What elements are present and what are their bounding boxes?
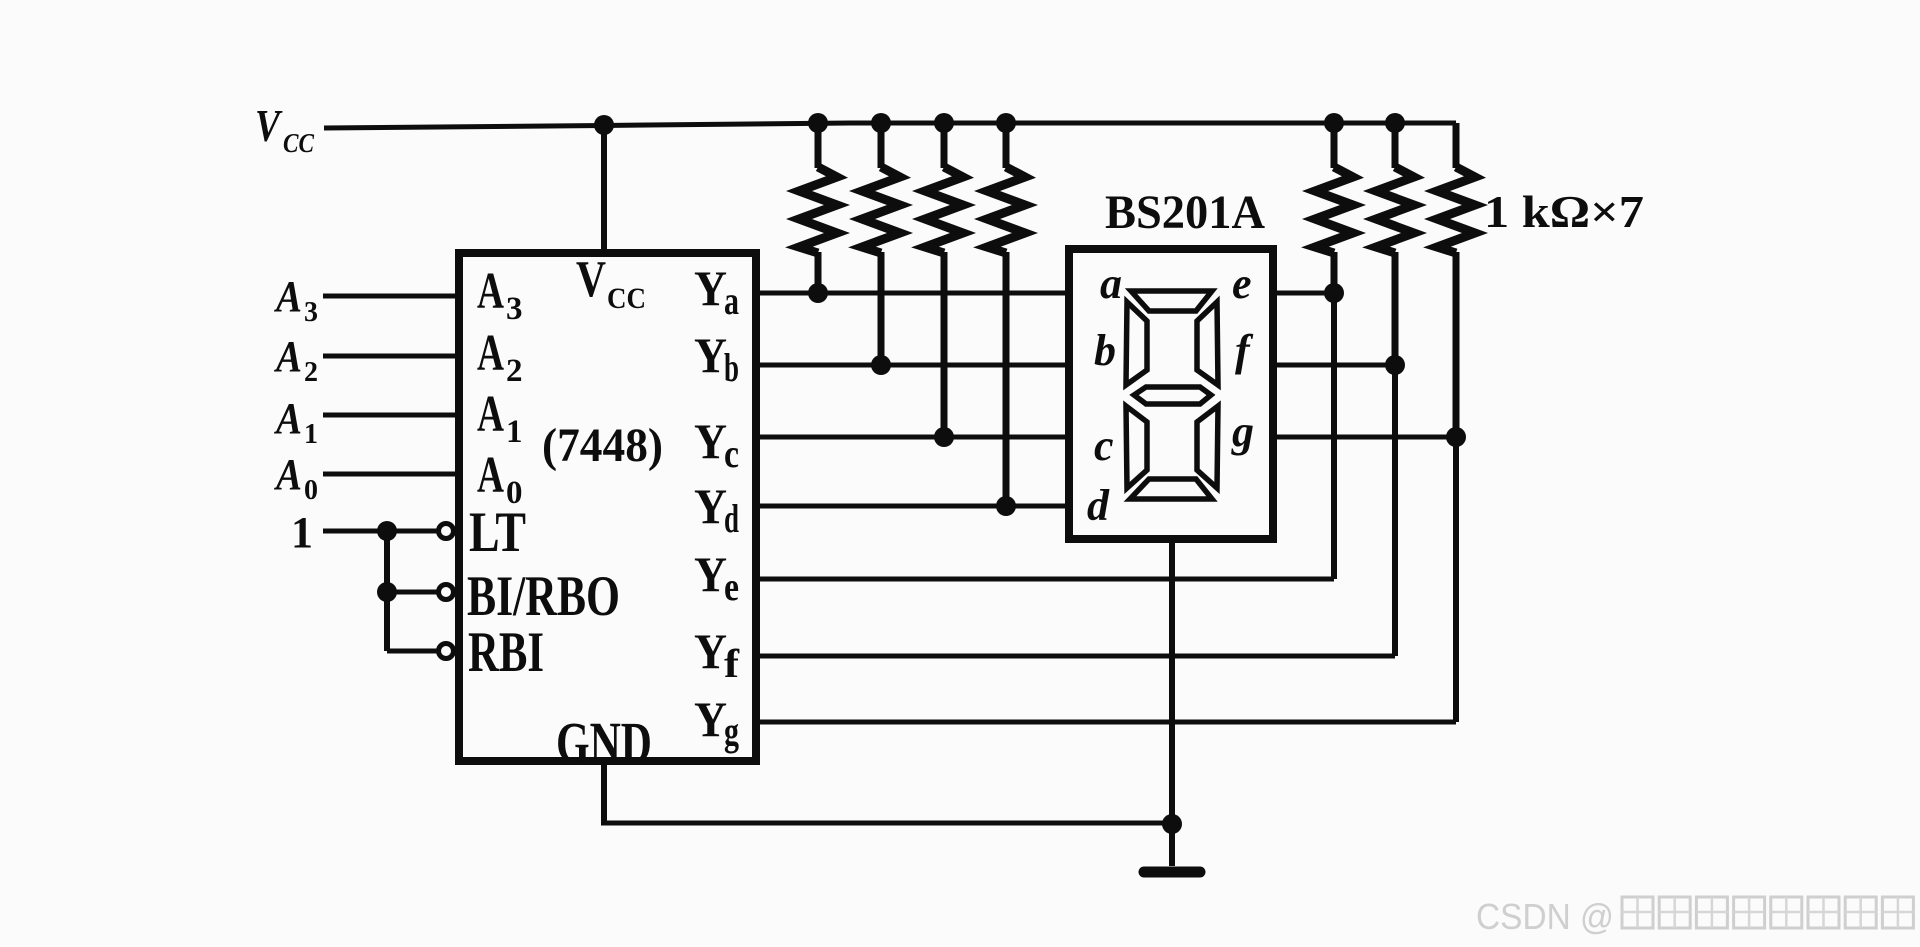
svg-text:3: 3 <box>304 297 318 328</box>
svg-text:Y: Y <box>694 260 727 316</box>
svg-text:2: 2 <box>506 353 523 389</box>
svg-text:Y: Y <box>694 327 727 383</box>
svg-text:1: 1 <box>291 508 313 557</box>
svg-text:A: A <box>273 450 302 499</box>
svg-text:CC: CC <box>607 282 646 315</box>
svg-text:2: 2 <box>304 357 318 388</box>
svg-text:GND: GND <box>556 710 652 775</box>
svg-text:0: 0 <box>304 475 318 506</box>
svg-text:LT: LT <box>469 501 526 564</box>
svg-text:A: A <box>273 272 302 321</box>
svg-text:Y: Y <box>694 478 727 534</box>
svg-text:BI/RBO: BI/RBO <box>467 565 620 628</box>
svg-text:Y: Y <box>694 691 727 747</box>
svg-text:1 kΩ×7: 1 kΩ×7 <box>1484 186 1644 237</box>
svg-text:A: A <box>477 386 504 443</box>
svg-text:A: A <box>273 332 302 381</box>
svg-text:g: g <box>1231 407 1254 456</box>
svg-text:A: A <box>477 447 504 504</box>
svg-text:3: 3 <box>506 291 523 327</box>
svg-text:A: A <box>477 325 504 382</box>
svg-text:b: b <box>724 345 739 390</box>
svg-text:d: d <box>1087 481 1110 530</box>
svg-text:f: f <box>724 641 740 686</box>
svg-text:a: a <box>1100 259 1122 308</box>
svg-text:BS201A: BS201A <box>1105 186 1265 239</box>
svg-text:A: A <box>273 394 302 443</box>
svg-text:V: V <box>255 100 283 151</box>
svg-text:Y: Y <box>694 413 727 469</box>
svg-text:a: a <box>724 278 739 323</box>
svg-text:Y: Y <box>694 623 727 679</box>
svg-text:e: e <box>1232 259 1252 308</box>
svg-text:V: V <box>576 251 606 308</box>
svg-text:CSDN @: CSDN @ <box>1476 896 1614 937</box>
svg-text:1: 1 <box>304 419 318 450</box>
svg-text:c: c <box>1094 421 1114 470</box>
svg-text:d: d <box>724 496 739 541</box>
svg-text:CC: CC <box>283 128 315 158</box>
svg-text:g: g <box>724 709 739 754</box>
svg-text:c: c <box>724 431 739 476</box>
svg-text:(7448): (7448) <box>542 419 663 472</box>
svg-text:Y: Y <box>694 546 727 602</box>
svg-text:b: b <box>1094 326 1116 375</box>
svg-text:1: 1 <box>506 414 523 450</box>
svg-text:RBI: RBI <box>468 621 544 684</box>
svg-text:e: e <box>724 564 739 609</box>
svg-text:A: A <box>477 263 504 320</box>
